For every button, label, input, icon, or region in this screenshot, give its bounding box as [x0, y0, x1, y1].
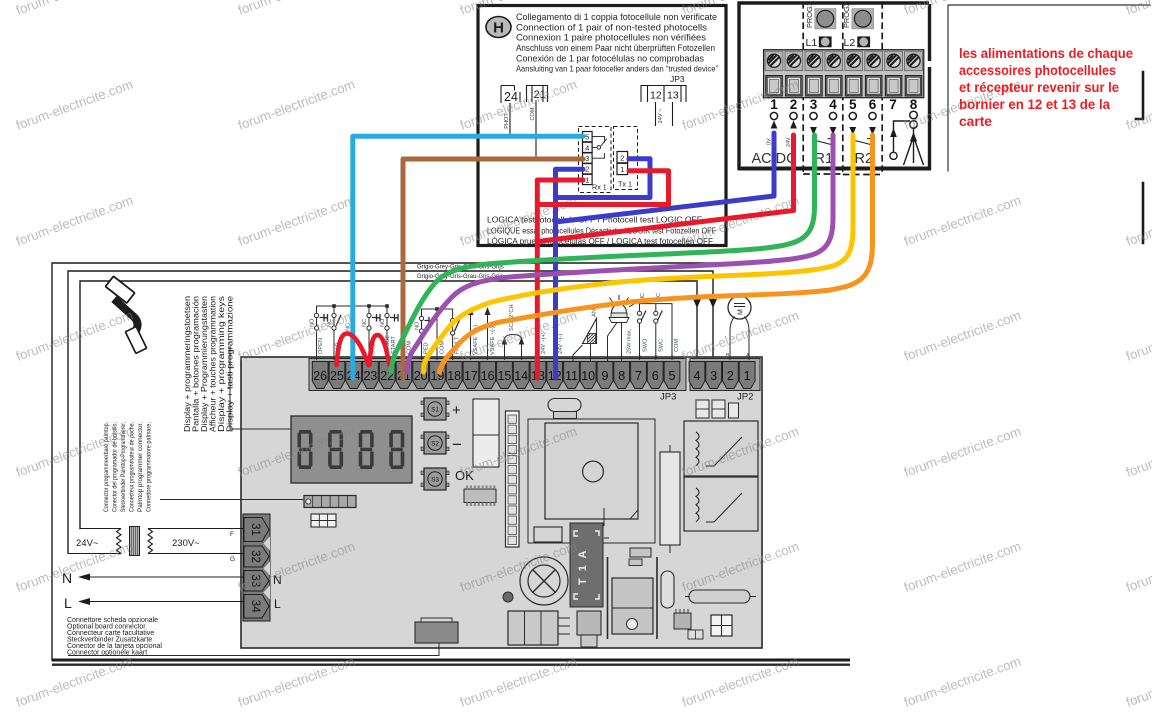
svg-text:23: 23 — [363, 369, 377, 383]
svg-text:Connettore programmatore palma: Connettore programmatore palmare, — [146, 422, 153, 512]
svg-text:11: 11 — [565, 369, 578, 383]
svg-text:forum-electricite.com: forum-electricite.com — [14, 77, 135, 133]
svg-text:Anschluss von einem Paar nicht: Anschluss von einem Paar nicht überprüft… — [516, 43, 715, 53]
svg-text:PROG2: PROG2 — [842, 2, 851, 28]
svg-text:forum-electricite.com: forum-electricite.com — [902, 0, 1023, 18]
svg-text:Connexion 1 paire photocellule: Connexion 1 paire photocellules non véri… — [516, 33, 706, 43]
svg-text:4: 4 — [694, 369, 701, 383]
svg-text:bornier en 12 et 13 de la: bornier en 12 et 13 de la — [959, 97, 1110, 112]
svg-text:−: − — [452, 435, 462, 454]
svg-text:forum-electricite.com: forum-electricite.com — [14, 193, 135, 249]
svg-text:H: H — [493, 20, 504, 37]
svg-text:F: F — [230, 531, 234, 538]
svg-text:24V ~: 24V ~ — [658, 108, 664, 124]
svg-text:forum-electricite.com: forum-electricite.com — [902, 308, 1023, 364]
svg-text:carte: carte — [959, 114, 992, 129]
svg-text:L: L — [274, 597, 281, 611]
svg-text:8: 8 — [910, 97, 918, 112]
svg-text:9: 9 — [602, 369, 609, 383]
svg-text:forum-electricite.com: forum-electricite.com — [902, 193, 1023, 249]
svg-text:10: 10 — [581, 369, 595, 383]
svg-text:forum-electricite.com: forum-electricite.com — [236, 77, 357, 133]
svg-text:B: B — [726, 353, 730, 359]
svg-text:forum-electricite.com: forum-electricite.com — [14, 308, 135, 364]
svg-text:forum-electricite.com: forum-electricite.com — [236, 0, 357, 18]
svg-text:1: 1 — [744, 369, 751, 383]
svg-text:2: 2 — [585, 165, 589, 174]
svg-text:25: 25 — [330, 369, 344, 383]
svg-text:forum-electricite.com: forum-electricite.com — [1124, 193, 1152, 249]
svg-text:24V ~(+): 24V ~(+) — [541, 332, 547, 354]
svg-text:34: 34 — [249, 600, 261, 613]
svg-text:17: 17 — [464, 369, 478, 383]
svg-text:forum-electricite.com: forum-electricite.com — [1124, 0, 1152, 18]
svg-text:5: 5 — [849, 97, 857, 112]
svg-text:L2: L2 — [844, 37, 856, 49]
svg-text:forum-electricite.com: forum-electricite.com — [14, 654, 135, 710]
svg-text:forum-electricite.com: forum-electricite.com — [236, 193, 357, 249]
svg-text:12: 12 — [650, 90, 662, 102]
svg-text:forum-electricite.com: forum-electricite.com — [902, 424, 1023, 480]
svg-text:forum-electricite.com: forum-electricite.com — [1124, 654, 1152, 710]
svg-text:NC: NC — [362, 319, 368, 327]
svg-text:PROG1: PROG1 — [805, 2, 814, 28]
svg-text:31: 31 — [249, 523, 261, 536]
svg-text:forum-electricite.com: forum-electricite.com — [236, 654, 357, 710]
svg-text:T 1 A: T 1 A — [577, 549, 589, 586]
svg-text:LÓGICA prueba fotocélulas OFF: LÓGICA prueba fotocélulas OFF / LOGICA t… — [487, 236, 713, 246]
svg-text:7: 7 — [635, 369, 642, 383]
svg-text:E: E — [639, 354, 642, 359]
svg-text:forum-electricite.com: forum-electricite.com — [902, 539, 1023, 595]
svg-text:5: 5 — [585, 133, 589, 142]
svg-text:OPEN: OPEN — [318, 338, 324, 354]
svg-text:forum-electricite.com: forum-electricite.com — [902, 654, 1023, 710]
svg-text:+: + — [452, 402, 461, 419]
svg-text:5: 5 — [669, 369, 676, 383]
svg-text:3: 3 — [585, 154, 589, 163]
svg-text:forum-electricite.com: forum-electricite.com — [1124, 539, 1152, 595]
svg-text:26: 26 — [313, 369, 327, 383]
svg-text:2: 2 — [727, 369, 734, 383]
svg-text:G: G — [230, 556, 235, 563]
svg-text:18: 18 — [447, 369, 461, 383]
svg-text:4: 4 — [829, 97, 837, 112]
svg-text:SWC: SWC — [659, 339, 665, 352]
svg-text:1: 1 — [585, 175, 589, 184]
svg-text:L: L — [64, 595, 72, 611]
svg-text:Connector optionele kaart: Connector optionele kaart — [67, 650, 147, 657]
svg-text:2: 2 — [620, 153, 624, 162]
svg-text:forum-electricite.com: forum-electricite.com — [458, 654, 579, 710]
svg-text:SWO: SWO — [643, 338, 649, 352]
svg-text:16: 16 — [481, 369, 495, 383]
svg-text:S1: S1 — [431, 407, 439, 414]
svg-text:forum-electricite.com: forum-electricite.com — [1124, 424, 1152, 480]
svg-text:Tx 1: Tx 1 — [618, 180, 632, 189]
svg-text:R1: R1 — [815, 151, 834, 167]
svg-text:25W max.: 25W max. — [627, 328, 633, 354]
svg-text:15: 15 — [497, 369, 511, 383]
svg-text:forum-electricite.com: forum-electricite.com — [1124, 77, 1152, 133]
svg-text:24V~: 24V~ — [76, 538, 99, 549]
svg-text:et récepteur revenir sur le: et récepteur revenir sur le — [959, 80, 1119, 95]
svg-text:NO: NO — [380, 318, 386, 327]
svg-text:1: 1 — [620, 165, 624, 174]
svg-text:Connection of 1 pair of non-te: Connection of 1 pair of non-tested photo… — [516, 22, 707, 32]
svg-text:2: 2 — [790, 97, 798, 112]
svg-text:JP3: JP3 — [660, 392, 676, 403]
svg-text:3: 3 — [810, 97, 818, 112]
svg-text:14: 14 — [514, 369, 528, 383]
svg-text:forum-electricite.com: forum-electricite.com — [14, 0, 135, 18]
svg-text:7: 7 — [889, 97, 897, 112]
svg-text:3: 3 — [710, 369, 717, 383]
svg-text:Aansluiting van 1 paar fotocel: Aansluiting van 1 paar fotoceller anders… — [516, 64, 718, 74]
svg-text:S2: S2 — [431, 441, 439, 448]
svg-text:M: M — [738, 309, 745, 315]
svg-text:Rx 1: Rx 1 — [592, 183, 607, 192]
svg-text:32: 32 — [249, 550, 261, 563]
svg-text:JP3: JP3 — [670, 74, 685, 84]
svg-text:COM: COM — [530, 107, 536, 120]
svg-text:forum-electricite.com: forum-electricite.com — [1124, 308, 1152, 364]
svg-text:24V ~(-): 24V ~(-) — [558, 334, 564, 354]
svg-text:forum-electricite.com: forum-electricite.com — [14, 539, 135, 595]
svg-text:S3: S3 — [431, 477, 439, 484]
svg-text:6: 6 — [652, 369, 659, 383]
svg-text:L1: L1 — [806, 37, 818, 49]
svg-text:les alimentations de chaque: les alimentations de chaque — [959, 46, 1133, 61]
svg-text:6: 6 — [869, 97, 877, 112]
svg-text:Display + tasti programmazione: Display + tasti programmazione — [226, 296, 235, 432]
svg-text:8: 8 — [618, 369, 625, 383]
svg-text:Palmtop programmer connector,: Palmtop programmer connector, — [137, 422, 144, 512]
svg-text:JP2: JP2 — [737, 392, 753, 403]
svg-text:Conexión de 1 par fotocélulas: Conexión de 1 par fotocélulas no comprob… — [516, 53, 704, 63]
svg-text:NO: NO — [415, 321, 421, 330]
svg-text:forum-electricite.com: forum-electricite.com — [680, 654, 801, 710]
svg-text:13: 13 — [667, 90, 679, 102]
svg-text:4: 4 — [585, 143, 589, 152]
svg-text:accessoires photocellules: accessoires photocellules — [959, 63, 1116, 78]
svg-text:230V~: 230V~ — [172, 538, 200, 549]
